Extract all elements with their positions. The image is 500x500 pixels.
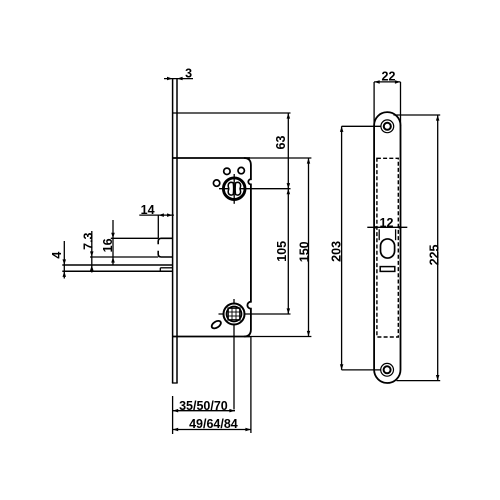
- svg-text:225: 225: [428, 245, 442, 266]
- svg-text:3: 3: [185, 66, 192, 80]
- svg-text:49/64/84: 49/64/84: [189, 417, 238, 431]
- svg-text:7.3: 7.3: [81, 232, 95, 249]
- svg-text:16: 16: [101, 238, 115, 252]
- svg-text:150: 150: [298, 241, 312, 262]
- svg-text:4: 4: [50, 252, 64, 259]
- svg-text:22: 22: [382, 69, 396, 83]
- svg-text:203: 203: [330, 241, 344, 262]
- svg-text:35/50/70: 35/50/70: [179, 399, 228, 413]
- svg-text:14: 14: [141, 203, 155, 217]
- svg-text:63: 63: [274, 136, 288, 150]
- svg-text:12: 12: [380, 216, 394, 230]
- svg-text:105: 105: [275, 241, 289, 262]
